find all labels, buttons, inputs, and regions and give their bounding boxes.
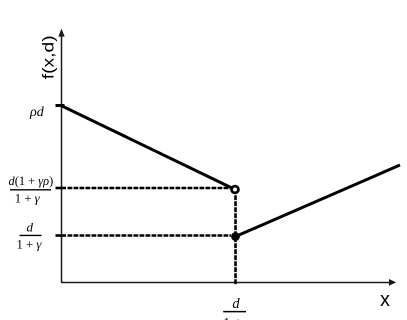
y-axis arrowhead bbox=[58, 29, 64, 37]
dashed horizontal guide to filled point bbox=[68, 234, 232, 237]
declining segment of f bbox=[61, 106, 235, 190]
dashed vertical guide at x = d/(1+gamma) bbox=[234, 195, 237, 284]
svg-text:1 + γ: 1 + γ bbox=[17, 237, 43, 251]
tick at rho*d level bbox=[56, 104, 65, 107]
svg-text:1 + γ: 1 + γ bbox=[223, 315, 253, 320]
svg-text:ρd: ρd bbox=[29, 105, 45, 120]
svg-text:1 + γ: 1 + γ bbox=[15, 191, 41, 205]
label fraction d/(1+gamma) below x-axis bbox=[223, 296, 253, 320]
label fraction d/(1+gamma) left bbox=[17, 220, 43, 252]
x-axis arrowhead bbox=[389, 279, 396, 286]
svg-text:d: d bbox=[27, 220, 34, 235]
y-axis bbox=[61, 34, 63, 283]
rising segment of f bbox=[236, 165, 401, 237]
svg-text:d(1 + γρ): d(1 + γρ) bbox=[9, 174, 54, 188]
x-axis bbox=[61, 282, 390, 284]
svg-text:x: x bbox=[380, 289, 390, 311]
label fraction d(1+gamma*rho)/(1+gamma) bbox=[9, 174, 54, 205]
dashed guide: tick at d/(1+gamma) bbox=[56, 234, 67, 237]
dashed horizontal guide to open point bbox=[68, 187, 231, 190]
open point (jump) bbox=[232, 186, 239, 193]
svg-text:d: d bbox=[232, 296, 240, 312]
dashed guide: tick at d(1+gamma*rho)/(1+gamma) bbox=[56, 187, 67, 190]
filled point bbox=[231, 232, 240, 241]
svg-text:f(x,d): f(x,d) bbox=[39, 35, 57, 79]
